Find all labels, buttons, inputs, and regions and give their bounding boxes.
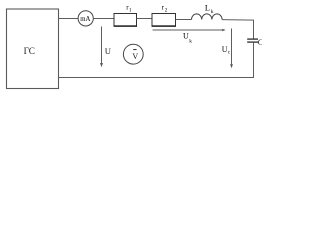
svg-text:L: L — [205, 3, 210, 12]
svg-text:U: U — [183, 32, 189, 41]
milliammeter mA — [78, 11, 93, 26]
svg-text:C: C — [258, 38, 262, 47]
svg-text:U: U — [105, 46, 112, 56]
wire: capacitor to bottom rail and back to generator — [58, 43, 254, 78]
signal generator box ГС — [7, 9, 59, 89]
wire: generator to milliammeter — [59, 18, 79, 20]
voltage arrow Uc (capacitor voltage) — [222, 29, 233, 69]
wire: r1 to r2 — [137, 18, 153, 20]
voltmeter V — [123, 44, 143, 64]
svg-text:k: k — [211, 9, 214, 15]
svg-text:1: 1 — [129, 8, 132, 14]
capacitor C — [247, 38, 264, 47]
voltage arrow U (input voltage) — [100, 27, 112, 68]
wire: r2 to inductor — [176, 19, 192, 21]
svg-text:c: c — [228, 50, 231, 56]
svg-text:V: V — [132, 52, 138, 61]
svg-text:k: k — [189, 38, 192, 44]
voltage arrow Uk (coil voltage) — [153, 29, 226, 45]
svg-text:2: 2 — [165, 8, 168, 14]
svg-text:mA: mA — [80, 16, 90, 23]
wire: milliammeter to r1 — [93, 18, 114, 20]
inductor Lk — [192, 3, 223, 19]
svg-text:ГС: ГС — [24, 46, 35, 56]
resistor r2 — [152, 3, 176, 26]
wire: inductor to capacitor (top right corner) — [222, 20, 253, 39]
resistor r1 — [114, 3, 137, 26]
